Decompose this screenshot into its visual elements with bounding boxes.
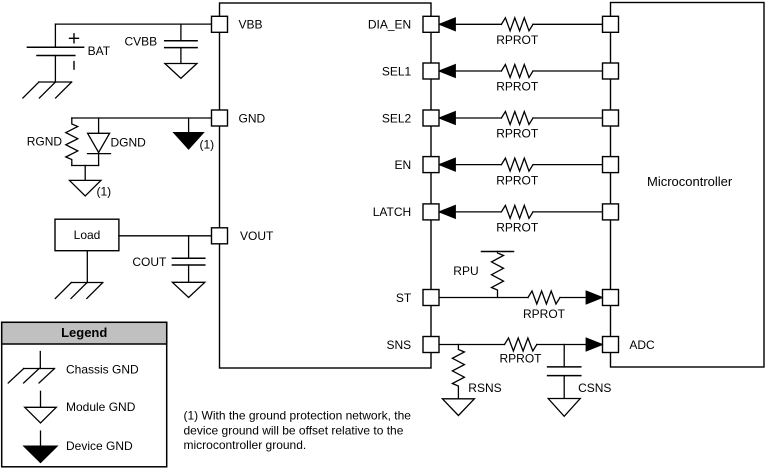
svg-text:microcontroller ground.: microcontroller ground. <box>184 438 307 452</box>
svg-text:SEL2: SEL2 <box>382 111 412 125</box>
svg-text:Load: Load <box>74 228 101 242</box>
svg-text:Module GND: Module GND <box>66 400 136 414</box>
svg-text:SNS: SNS <box>387 338 412 352</box>
svg-text:DIA_EN: DIA_EN <box>368 18 411 32</box>
svg-text:RPROT: RPROT <box>496 33 539 47</box>
svg-text:RPROT: RPROT <box>523 307 566 321</box>
svg-text:(1): (1) <box>200 138 215 152</box>
svg-text:GND: GND <box>239 111 266 125</box>
svg-text:Device GND: Device GND <box>66 439 133 453</box>
svg-text:VOUT: VOUT <box>240 229 274 243</box>
svg-text:DGND: DGND <box>111 135 147 149</box>
svg-text:CSNS: CSNS <box>578 381 611 395</box>
svg-text:RPROT: RPROT <box>496 80 539 94</box>
svg-text:ADC: ADC <box>629 338 655 352</box>
svg-text:(1) With the ground protection: (1) With the ground protection network, … <box>184 409 412 423</box>
svg-text:Microcontroller: Microcontroller <box>647 174 733 189</box>
svg-text:SEL1: SEL1 <box>382 64 412 78</box>
svg-text:CVBB: CVBB <box>125 35 158 49</box>
svg-text:LATCH: LATCH <box>373 205 411 219</box>
svg-text:RSNS: RSNS <box>468 381 501 395</box>
svg-text:COUT: COUT <box>132 255 167 269</box>
svg-text:BAT: BAT <box>88 44 111 58</box>
svg-text:ST: ST <box>396 291 412 305</box>
svg-text:RPROT: RPROT <box>496 221 539 235</box>
svg-text:Legend: Legend <box>61 325 107 340</box>
svg-text:Chassis GND: Chassis GND <box>66 362 139 376</box>
svg-text:(1): (1) <box>97 185 112 199</box>
svg-text:RPROT: RPROT <box>496 127 539 141</box>
svg-text:RGND: RGND <box>27 135 63 149</box>
svg-text:RPROT: RPROT <box>496 173 539 187</box>
svg-text:RPU: RPU <box>453 264 478 278</box>
svg-text:EN: EN <box>395 158 412 172</box>
svg-text:RPROT: RPROT <box>500 352 543 366</box>
svg-text:device ground will be offset r: device ground will be offset relative to… <box>184 423 404 437</box>
svg-text:VBB: VBB <box>239 18 263 32</box>
